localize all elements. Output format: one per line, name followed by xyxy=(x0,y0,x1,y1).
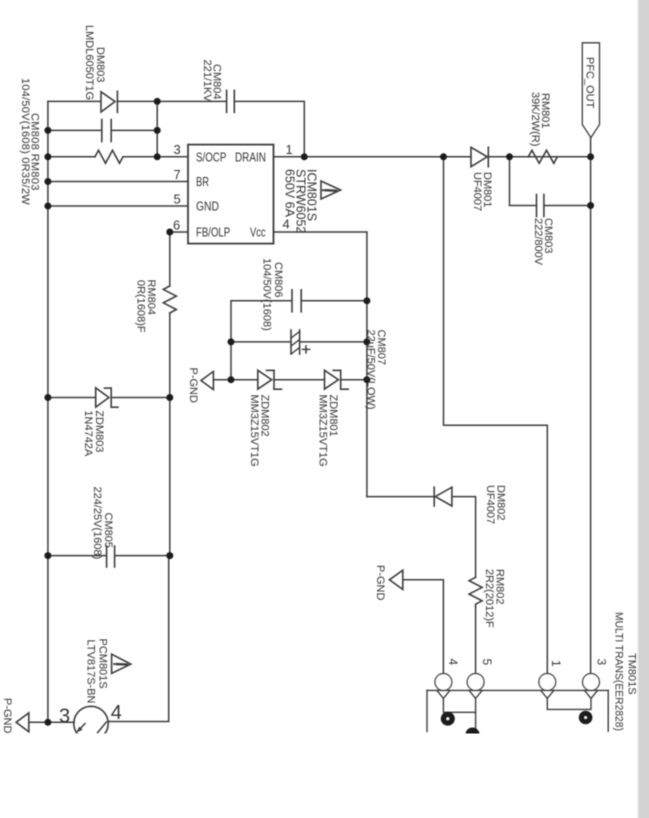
wire: BR pin 7 row xyxy=(48,181,188,183)
junction node dots: left bus xyxy=(44,127,51,134)
ground P-GND (middle) xyxy=(201,371,213,389)
transformer winding lead pin4 xyxy=(443,698,475,712)
wire: RM803 row to pin 3 xyxy=(48,156,95,158)
junction dots: Vcc bus xyxy=(363,297,370,304)
svg-text:LTV817S-BN: LTV817S-BN xyxy=(85,640,97,704)
wire xyxy=(115,555,170,557)
wire xyxy=(341,379,367,381)
svg-text:650V 6A: 650V 6A xyxy=(283,169,297,218)
svg-text:P-GND: P-GND xyxy=(187,368,199,404)
winding polarity dot A xyxy=(441,712,455,726)
svg-text:MM3Z15VT1G: MM3Z15VT1G xyxy=(248,395,260,467)
capacitor CM804 xyxy=(227,90,235,112)
resistor RM801 xyxy=(528,150,557,163)
wire: x=231 branch bus xyxy=(230,301,232,380)
wire: ZDM803 row xyxy=(48,397,96,399)
wire xyxy=(544,205,590,207)
wire xyxy=(112,129,157,131)
capacitor CM807 polarized xyxy=(291,330,310,354)
zener diode ZDM803 xyxy=(96,388,118,407)
wire: CM807 row xyxy=(231,341,290,343)
wire xyxy=(235,101,304,156)
svg-text:7: 7 xyxy=(174,167,181,182)
svg-text:4: 4 xyxy=(283,216,290,231)
wire: pin6 down to RM804 xyxy=(169,232,171,286)
wire: CM806 row xyxy=(231,300,291,302)
resistor RM802 xyxy=(469,577,482,606)
wire xyxy=(302,300,367,302)
svg-text:3: 3 xyxy=(595,659,609,666)
wire: zener row xyxy=(213,379,257,381)
wire: drain net xyxy=(304,156,471,158)
svg-text:P-GND: P-GND xyxy=(374,565,386,601)
zener diode ZDM801 xyxy=(325,370,349,389)
wire xyxy=(300,341,367,343)
svg-text:1: 1 xyxy=(549,660,563,667)
wire: Vcc bus down xyxy=(366,232,368,497)
wire: drain to transformer pin 1 xyxy=(444,157,548,673)
wire xyxy=(117,100,157,102)
wire: Vcc to DM802 xyxy=(367,496,434,498)
transformer box left xyxy=(426,690,428,731)
svg-text:BR: BR xyxy=(196,175,209,189)
svg-text:1: 1 xyxy=(286,142,293,157)
svg-text:GND: GND xyxy=(196,199,219,213)
transformer box right xyxy=(607,690,609,731)
scrollbar xyxy=(638,0,649,818)
wire: FB/OLP pin 6 stub xyxy=(170,231,188,233)
wire: CM808 row xyxy=(48,129,101,131)
junction dot: pin6 xyxy=(166,229,173,236)
wire: top row (DM803 row) xyxy=(48,100,100,102)
optocoupler PCM801S circle xyxy=(74,706,108,740)
wire: PFC_OUT bus xyxy=(590,138,592,673)
wire: RM802 down to transformer pin 5 xyxy=(475,606,477,673)
junction dots: FB bus xyxy=(166,394,173,401)
svg-text:PCM801S: PCM801S xyxy=(97,639,109,689)
svg-text:4: 4 xyxy=(446,659,460,666)
svg-text:6: 6 xyxy=(173,218,180,233)
wire: FB bus down xyxy=(169,398,171,556)
svg-text:1N4742A: 1N4742A xyxy=(82,410,94,457)
winding polarity dot B xyxy=(466,728,480,742)
svg-text:222/800V: 222/800V xyxy=(532,218,544,266)
junction dots: drain net xyxy=(301,153,308,160)
wire xyxy=(111,397,170,399)
warning symbol (ICM801S) xyxy=(321,181,341,199)
svg-text:104/50V(1608) 0R35/2W: 104/50V(1608) 0R35/2W xyxy=(19,78,31,205)
svg-text:0R(1608)F: 0R(1608)F xyxy=(135,280,147,333)
capacitor CM805 xyxy=(107,546,115,567)
winding polarity dot C xyxy=(579,711,593,725)
transformer pin3 chevron xyxy=(584,690,597,698)
transformer winding lead pin1-pin3 xyxy=(547,698,591,709)
wire: short bus x=157 xyxy=(156,101,158,156)
transformer pin4 chevron xyxy=(437,690,450,698)
svg-text:MM3Z15VT1G: MM3Z15VT1G xyxy=(317,395,329,467)
wire: P-GND to opto pin 3 xyxy=(29,721,74,723)
svg-text:22uF/50V(LOW): 22uF/50V(LOW) xyxy=(365,330,377,410)
transformer box top xyxy=(427,689,608,691)
zener diode ZDM802 xyxy=(258,370,282,389)
svg-text:UF4007: UF4007 xyxy=(471,172,483,211)
svg-text:4: 4 xyxy=(111,702,122,724)
svg-text:P-GND: P-GND xyxy=(1,698,13,734)
transformer pin circle 1 xyxy=(539,674,556,691)
diode DM802 xyxy=(434,487,452,506)
diode DM803 xyxy=(101,91,117,112)
transformer TM801S pin circle 4 xyxy=(435,674,452,691)
ground P-GND (bottom left) xyxy=(16,713,29,732)
optocoupler transistor stroke xyxy=(98,722,107,733)
optocoupler led arrow xyxy=(76,724,85,733)
capacitor CM808 xyxy=(102,120,111,142)
svg-text:LMDL6050T1G: LMDL6050T1G xyxy=(83,25,95,100)
wire: IC pin4 Vcc xyxy=(274,231,367,233)
wire: CM803 branch xyxy=(510,157,537,206)
wire: GND pin 5 row xyxy=(48,205,188,207)
diode DM801 xyxy=(471,147,488,166)
svg-text:39K/2W(R): 39K/2W(R) xyxy=(529,92,541,146)
svg-text:221/1KV: 221/1KV xyxy=(201,60,213,103)
wire: CM805 row xyxy=(48,555,106,557)
svg-text:3: 3 xyxy=(59,705,70,727)
junction dots: x=231 bus xyxy=(228,338,235,345)
net flag PFC_OUT xyxy=(582,43,599,138)
resistor RM803 xyxy=(95,150,123,163)
transformer pin5 chevron xyxy=(469,690,482,698)
transformer winding lead pin5 xyxy=(475,698,477,733)
ic U ICM801S box xyxy=(188,145,274,244)
svg-text:FB/OLP: FB/OLP xyxy=(196,226,230,240)
wire: RM804 down to ZDM803 row xyxy=(169,313,171,398)
capacitor CM806 xyxy=(292,290,301,312)
svg-text:Vcc: Vcc xyxy=(250,226,266,240)
svg-text:TM801S: TM801S xyxy=(626,653,638,695)
capacitor CM803 xyxy=(537,195,544,217)
warning symbol (PCM801S) xyxy=(112,654,131,673)
transformer pin circle 5 xyxy=(467,674,484,691)
wire: left bus xyxy=(47,101,49,722)
transformer pin circle 3 xyxy=(583,674,600,691)
svg-text:3: 3 xyxy=(174,142,181,157)
wire: DM802 to RM802 xyxy=(452,497,476,578)
svg-text:5: 5 xyxy=(480,659,494,666)
svg-text:104/50V(1608): 104/50V(1608) xyxy=(261,258,273,331)
svg-text:224/25V(1608): 224/25V(1608) xyxy=(91,487,103,560)
svg-text:CM806: CM806 xyxy=(272,262,284,297)
wire xyxy=(274,379,325,381)
ground P-GND (lower middle) xyxy=(389,570,402,589)
wire: FB bus down to opto xyxy=(108,556,169,722)
svg-text:5: 5 xyxy=(174,191,181,206)
wire xyxy=(157,100,226,102)
wire: IC pin1 to drain net xyxy=(274,156,305,158)
junction dots: x=157 bus xyxy=(154,98,161,105)
svg-text:2R2(2012)F: 2R2(2012)F xyxy=(483,569,495,628)
wire xyxy=(123,156,188,158)
svg-text:DRAIN: DRAIN xyxy=(235,151,266,164)
svg-text:PFC_OUT: PFC_OUT xyxy=(584,57,596,109)
wire: P-GND to transformer pin 4 xyxy=(403,580,444,673)
svg-text:UF4007: UF4007 xyxy=(484,485,496,524)
svg-text:S/OCP: S/OCP xyxy=(196,151,227,165)
wire xyxy=(488,156,590,158)
resistor RM804 xyxy=(163,286,176,313)
svg-text:MULTI TRANS(EER2828): MULTI TRANS(EER2828) xyxy=(613,612,625,731)
transformer pin1 chevron xyxy=(541,690,554,698)
